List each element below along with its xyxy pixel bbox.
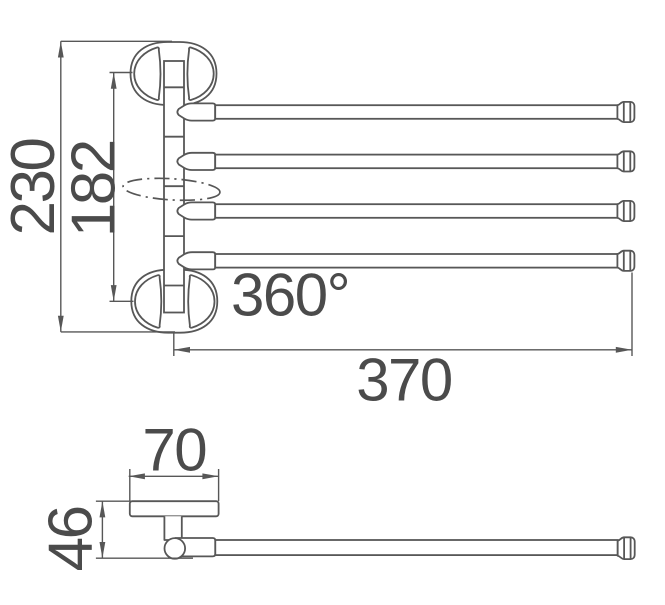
dimension 182 extension line top (110, 72, 133, 74)
dimension 182 extension line bottom (110, 300, 134, 302)
dimension 370 extension line right (631, 273, 633, 357)
arm 3 end cap (617, 201, 634, 221)
arm 3 pivot block (177, 202, 215, 219)
arm 2 bar (215, 155, 617, 169)
post collar divider 5 (164, 285, 184, 287)
svg-text:182: 182 (60, 141, 129, 237)
arm 4 pivot block (177, 252, 215, 269)
dimension 230 extension line bottom (61, 331, 175, 333)
top mounting plate (131, 42, 217, 105)
arm 4 end cap (617, 251, 634, 271)
side view end cap (618, 537, 635, 559)
side view pivot circle (165, 538, 186, 559)
svg-text:70: 70 (142, 416, 206, 483)
arm 1 bar (215, 105, 617, 119)
svg-text:360°: 360° (231, 262, 349, 329)
dimension 70 extension line left (129, 469, 131, 501)
svg-text:370: 370 (356, 347, 452, 414)
rotation axis dash-dot ellipse (122, 176, 220, 203)
side view bar (215, 540, 617, 555)
arm 1 pivot block (177, 103, 215, 120)
arm 3 bar (215, 204, 617, 218)
arm 2 end cap (617, 151, 634, 171)
dimension 46 extension line bottom (96, 557, 193, 559)
dimension 70 extension line right (218, 469, 220, 501)
post collar divider 1 (164, 86, 184, 88)
side view wall plate (130, 501, 219, 516)
svg-text:46: 46 (37, 507, 106, 571)
dimension 230 line (60, 41, 62, 332)
dimension 46 extension line top (96, 500, 131, 502)
side view pivot block (176, 538, 215, 556)
post collar divider 4 (164, 235, 184, 237)
dimension 230 extension line top (61, 40, 172, 42)
post collar divider 2 (164, 136, 184, 138)
dimension 46 line (101, 501, 103, 558)
arm 1 end cap (617, 102, 634, 122)
side view stem (164, 516, 181, 540)
dimension 70 line (129, 475, 219, 477)
svg-text:230: 230 (0, 139, 68, 236)
post collar divider 3 (164, 185, 184, 187)
dimension 182 line (113, 73, 115, 302)
arm 4 bar (215, 254, 617, 268)
arm 2 pivot block (177, 153, 215, 170)
bottom mounting plate (131, 270, 217, 333)
dimension 370 extension line left (173, 332, 175, 356)
dimension 370 line (174, 349, 632, 351)
vertical pivot post (164, 61, 184, 313)
